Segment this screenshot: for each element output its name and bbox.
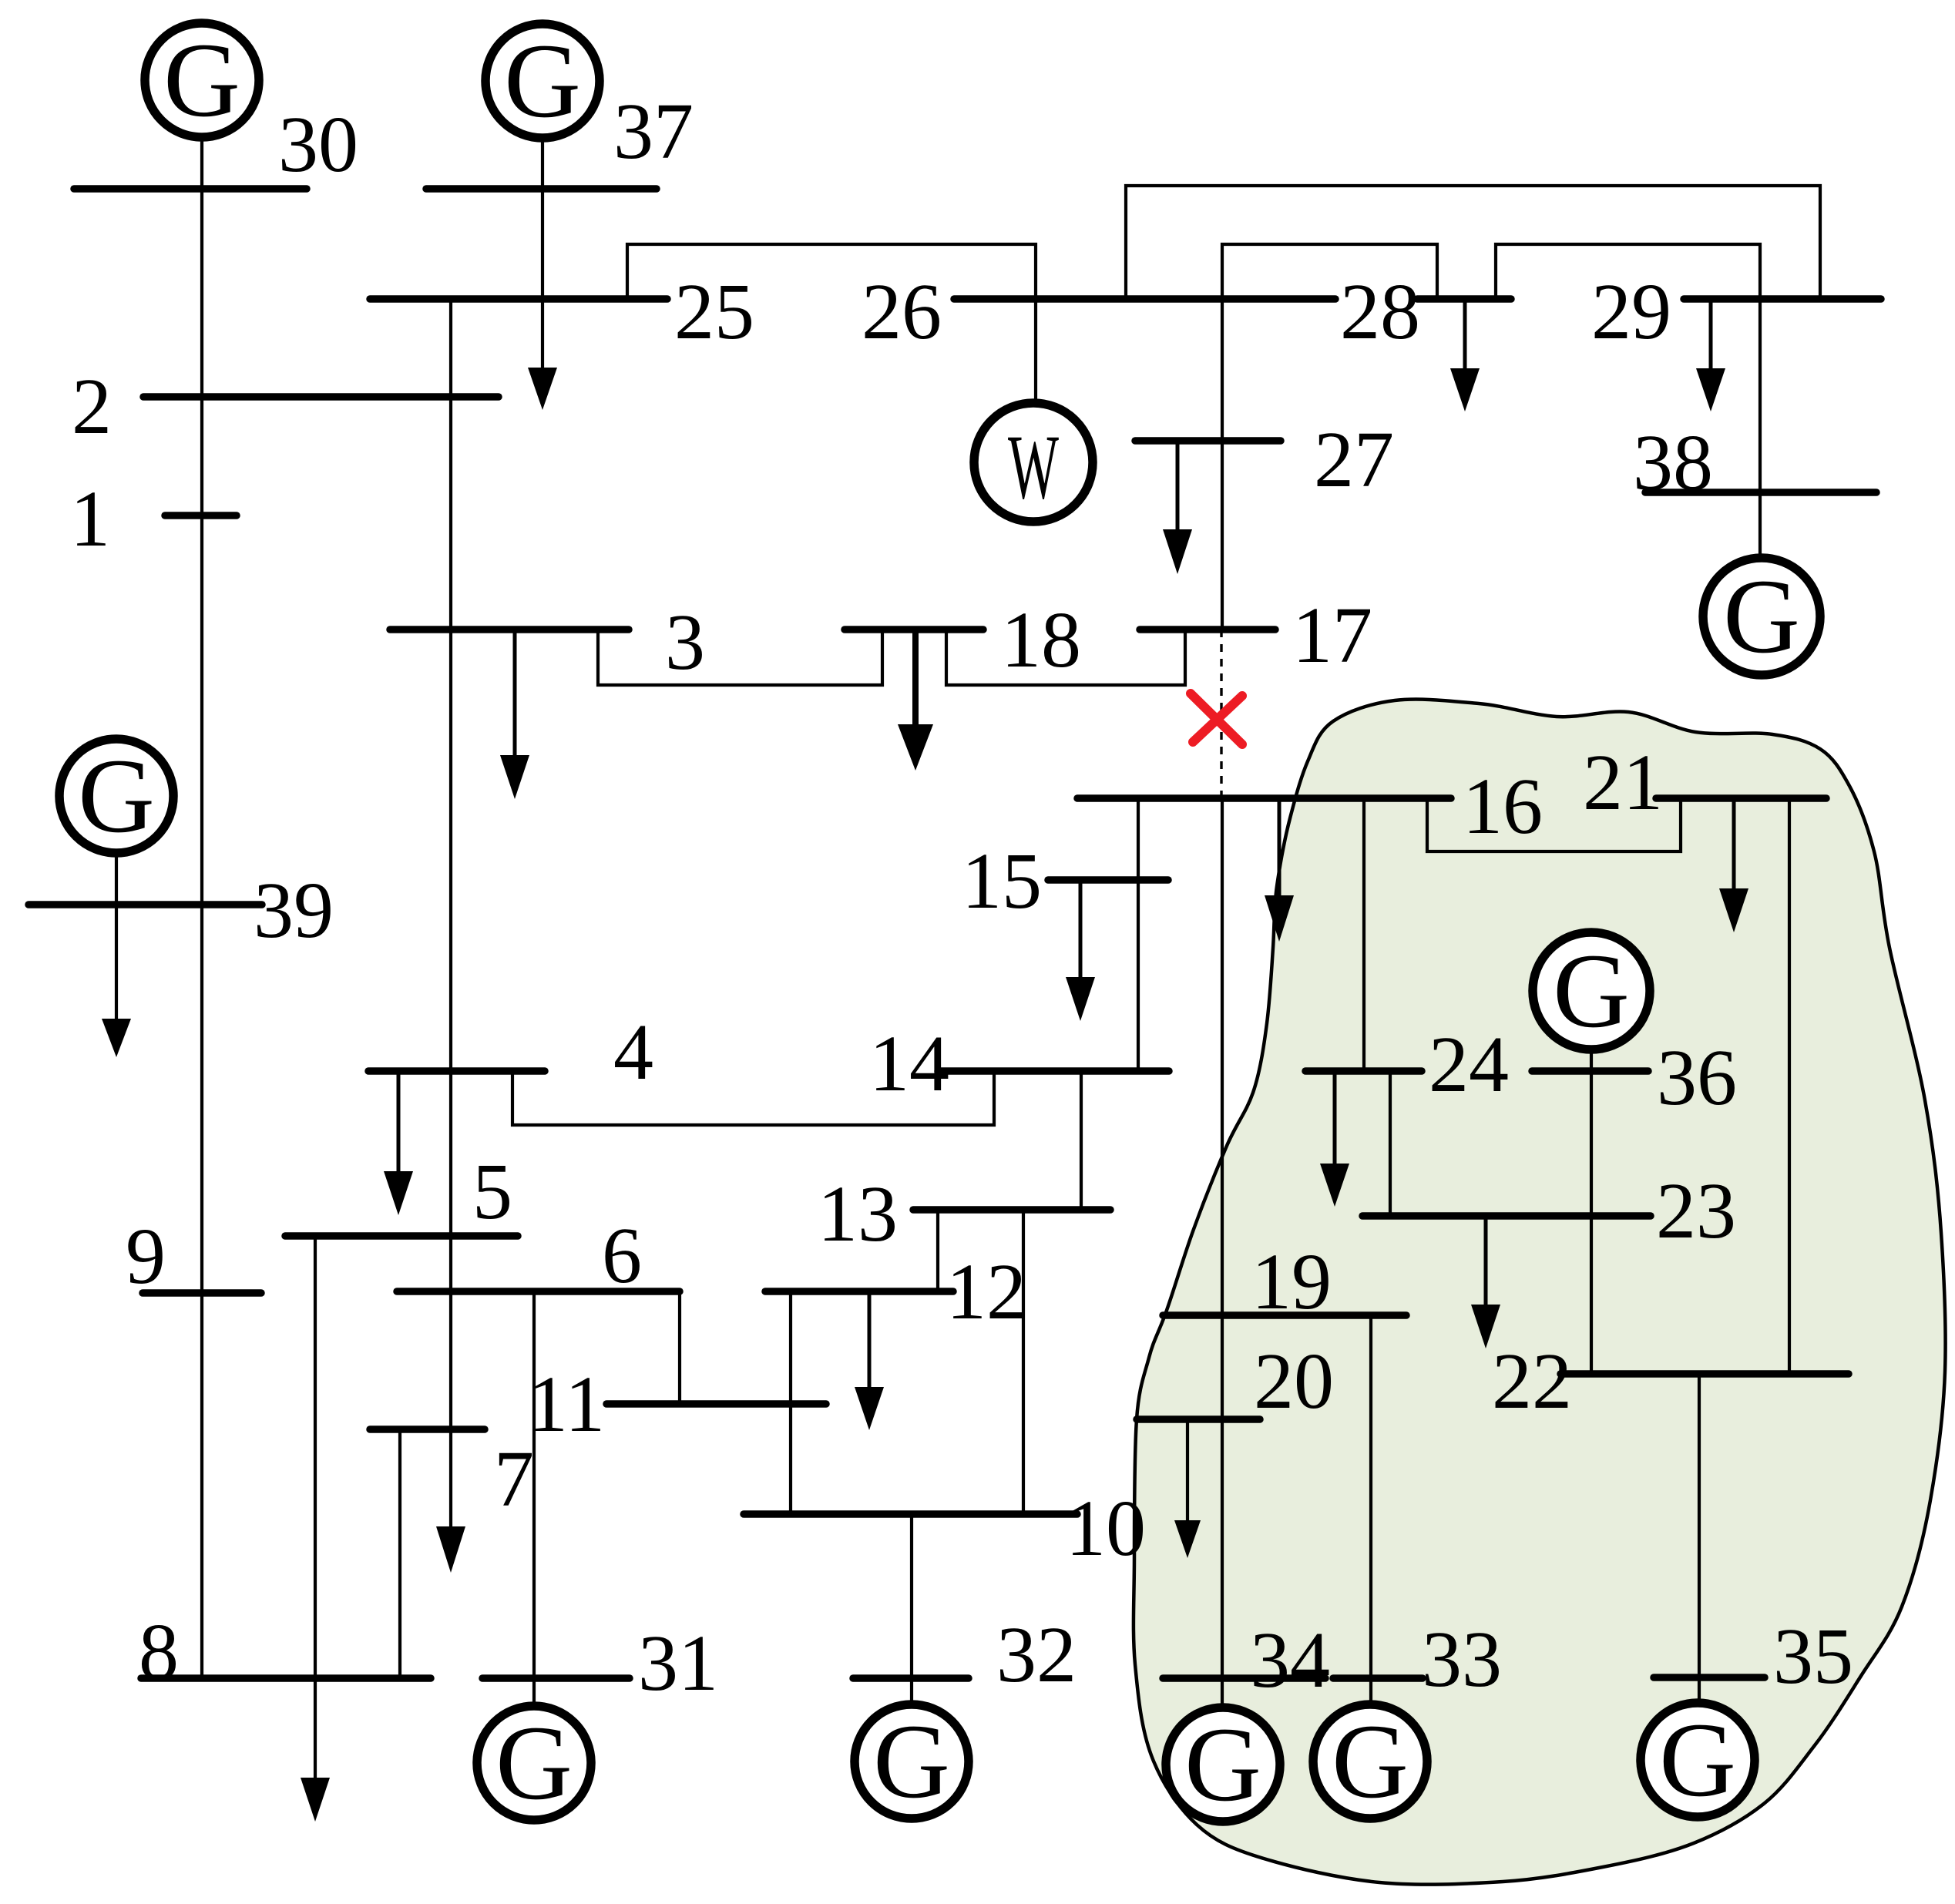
wire line 6-11	[678, 1291, 681, 1404]
bus 36	[1532, 1067, 1648, 1075]
wire line 5-8	[314, 1236, 317, 1778]
bus 33	[1333, 1674, 1423, 1682]
svg-text:28: 28	[1340, 267, 1420, 356]
load arrow bus 8	[301, 1778, 330, 1822]
wire line 16-21 step	[1427, 798, 1681, 851]
load arrow bus 15	[1079, 880, 1083, 979]
load arrow bus 4	[397, 1071, 401, 1173]
svg-text:22: 22	[1492, 1337, 1572, 1425]
bus 34	[1163, 1674, 1325, 1682]
red X fault mark on line 16-17	[1191, 693, 1242, 744]
load arrow bus 18	[912, 630, 919, 726]
svg-text:16: 16	[1463, 762, 1543, 851]
bus 37	[426, 185, 657, 193]
svg-text:G: G	[1723, 557, 1800, 675]
svg-text:6: 6	[602, 1211, 642, 1300]
wire line 28-29 step	[1496, 244, 1760, 299]
bus 18	[845, 626, 983, 633]
bus 17	[1140, 626, 1275, 633]
wire line 21-22	[1788, 798, 1791, 1374]
load arrow bus 29	[1709, 299, 1713, 370]
wire line 12-11-10	[789, 1291, 792, 1514]
bus 2	[143, 393, 499, 401]
bus 25	[370, 295, 667, 303]
svg-text:G: G	[504, 22, 581, 139]
wire line 19-33 and G33	[1369, 1315, 1372, 1704]
svg-text:34: 34	[1250, 1616, 1330, 1704]
generator G33	[1313, 1702, 1427, 1820]
svg-text:17: 17	[1292, 591, 1372, 680]
bus 39	[29, 901, 262, 908]
load arrow bus 39	[102, 1019, 131, 1057]
bus 19	[1163, 1311, 1406, 1319]
svg-text:3: 3	[665, 598, 705, 687]
wire line 6-31 and G31	[532, 1291, 536, 1705]
bus 30	[74, 185, 307, 193]
wire line 22-35 and G35	[1698, 1374, 1701, 1703]
svg-text:12: 12	[946, 1248, 1026, 1336]
svg-text:26: 26	[862, 267, 942, 356]
svg-text:11: 11	[528, 1360, 605, 1449]
svg-text:G: G	[1184, 1705, 1261, 1823]
wire line 18-17 step	[946, 630, 1185, 685]
svg-text:W: W	[1008, 415, 1059, 518]
islanded region highlight	[1134, 700, 1946, 1885]
bus 15	[1048, 876, 1168, 884]
bus 3	[390, 626, 629, 633]
svg-text:39: 39	[254, 866, 334, 955]
wire G36 to bus 36 and line 36-23-22	[1590, 1049, 1593, 1374]
svg-text:10: 10	[1066, 1484, 1146, 1573]
bus 12	[765, 1288, 953, 1295]
svg-text:33: 33	[1422, 1615, 1502, 1704]
svg-text:36: 36	[1657, 1033, 1737, 1122]
svg-text:29: 29	[1591, 267, 1671, 356]
wire line 7-8	[398, 1429, 401, 1678]
wire line 13-10	[1022, 1210, 1025, 1514]
bus 16	[1077, 794, 1451, 802]
svg-text:19: 19	[1251, 1237, 1332, 1326]
wire line 4-14 step	[512, 1071, 994, 1125]
load arrow bus 23	[1484, 1216, 1488, 1306]
wire line 14-13	[1080, 1071, 1083, 1210]
dashed tripped line 17-16	[1220, 630, 1222, 798]
generator G39	[59, 737, 173, 855]
svg-text:23: 23	[1656, 1167, 1736, 1255]
wire line 13-12	[936, 1210, 939, 1291]
bus 20	[1137, 1415, 1260, 1423]
wire line 26-28 step	[1222, 244, 1437, 299]
bus 22	[1560, 1370, 1849, 1378]
bus 38	[1645, 489, 1876, 496]
load arrow bus 7	[449, 1429, 452, 1528]
svg-text:5: 5	[472, 1147, 512, 1236]
generator G35	[1641, 1701, 1755, 1818]
generator G37	[485, 22, 600, 139]
load arrow bus 3	[513, 630, 517, 757]
generator G36	[1533, 932, 1650, 1049]
svg-text:1: 1	[70, 475, 110, 563]
bus 7	[370, 1425, 485, 1433]
wire line 29-38 and G38	[1758, 299, 1762, 558]
svg-text:21: 21	[1583, 738, 1663, 827]
bus 28	[1417, 295, 1511, 303]
bus 21	[1656, 794, 1826, 802]
svg-text:37: 37	[613, 87, 694, 176]
svg-text:8: 8	[139, 1607, 179, 1696]
bus 26	[954, 295, 1335, 303]
bus 14	[938, 1067, 1169, 1075]
svg-text:2: 2	[72, 362, 112, 451]
load arrow bus 16	[1278, 798, 1281, 897]
svg-text:25: 25	[674, 267, 754, 356]
bus 31	[482, 1674, 630, 1682]
generator G38	[1703, 557, 1820, 675]
svg-text:G: G	[1332, 1702, 1409, 1820]
svg-text:G: G	[495, 1704, 573, 1822]
generator G34	[1166, 1705, 1280, 1823]
load arrow bus 27	[1176, 441, 1180, 531]
wind plant W at bus 26	[974, 403, 1093, 522]
generator G32	[855, 1702, 969, 1820]
wire line 16-15-14	[1137, 798, 1140, 1071]
svg-text:13: 13	[818, 1170, 898, 1258]
wire bus 26 to wind plant W	[1034, 299, 1037, 404]
svg-text:30: 30	[278, 100, 358, 189]
svg-text:18: 18	[1001, 596, 1081, 684]
svg-text:G: G	[163, 21, 240, 139]
wire line 25-2-3-4-5-6-7	[449, 299, 452, 1429]
bus 10	[744, 1510, 1077, 1518]
bus 29	[1684, 295, 1881, 303]
wire G37 to bus 37 and bus 25	[541, 138, 544, 368]
svg-text:G: G	[1659, 1701, 1736, 1818]
svg-text:27: 27	[1314, 415, 1394, 504]
wire G39 to bus 39	[115, 853, 118, 1019]
generator G30	[145, 21, 259, 139]
wire line 26-27-17	[1221, 299, 1224, 630]
bus 9	[143, 1289, 261, 1297]
bus 6	[397, 1288, 680, 1295]
svg-text:24: 24	[1429, 1020, 1509, 1109]
bus 1	[165, 512, 237, 519]
svg-text:20: 20	[1254, 1337, 1334, 1425]
bus 32	[853, 1674, 969, 1682]
wire line 10-32 and G32	[910, 1514, 913, 1704]
generator G31	[477, 1704, 591, 1822]
load arrow bus 12	[868, 1291, 872, 1389]
wire line 25-26 step	[627, 244, 1036, 299]
bus 5	[285, 1232, 518, 1240]
bus 11	[606, 1400, 826, 1408]
wire line 24-23	[1389, 1071, 1392, 1216]
load arrow bus 25	[528, 368, 557, 410]
svg-text:38: 38	[1633, 418, 1713, 507]
wire G30 to buses 30-2-1-39-9-8	[200, 137, 203, 1678]
load arrow bus 28	[1463, 299, 1467, 370]
svg-text:31: 31	[638, 1619, 718, 1708]
svg-text:G: G	[873, 1702, 950, 1820]
bus 27	[1135, 437, 1281, 445]
svg-text:32: 32	[996, 1610, 1077, 1699]
wire line 16-24	[1362, 798, 1365, 1071]
wire line 3-18 step	[598, 630, 882, 685]
bus 13	[913, 1206, 1110, 1214]
svg-text:15: 15	[962, 837, 1042, 925]
bus 35	[1654, 1674, 1765, 1681]
bus 4	[368, 1067, 545, 1075]
svg-text:4: 4	[613, 1008, 653, 1096]
svg-text:7: 7	[494, 1435, 534, 1523]
load arrow bus 21	[1732, 798, 1736, 890]
load arrow bus 24	[1333, 1071, 1337, 1165]
svg-text:9: 9	[126, 1212, 166, 1301]
svg-text:G: G	[78, 737, 155, 855]
svg-text:G: G	[1553, 932, 1630, 1049]
load arrow bus 20	[1186, 1419, 1189, 1522]
wire line 16-19-20-34 and G34	[1221, 798, 1224, 1708]
bus 8	[141, 1674, 431, 1682]
bus 23	[1362, 1212, 1651, 1220]
svg-text:35: 35	[1773, 1612, 1853, 1701]
svg-text:14: 14	[869, 1019, 949, 1108]
wire line 26-29 step	[1126, 186, 1820, 299]
bus 24	[1305, 1067, 1422, 1075]
